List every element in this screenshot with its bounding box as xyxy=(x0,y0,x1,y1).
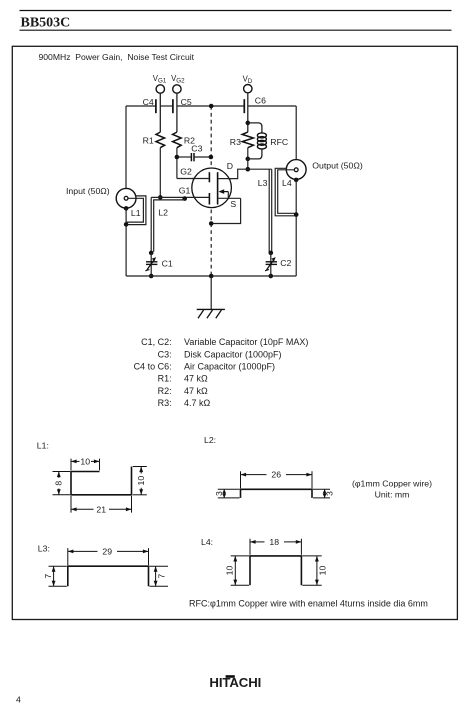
svg-text:G2: G2 xyxy=(180,167,192,177)
svg-text:7: 7 xyxy=(156,574,166,579)
wire: output down xyxy=(295,180,297,276)
wire: C3 right xyxy=(194,156,211,158)
figure L1 dim 21 line and arrows xyxy=(71,508,94,510)
svg-text:D: D xyxy=(227,161,233,171)
wire: drain node to L3 xyxy=(248,168,272,170)
wire: source lead inside circle xyxy=(218,197,240,199)
svg-text:R3:: R3: xyxy=(158,398,172,408)
svg-text:C3:: C3: xyxy=(158,349,172,359)
figure L3 dim 29 extensions xyxy=(67,548,69,565)
terminal VG1 circle xyxy=(156,85,164,93)
svg-text:L3:: L3: xyxy=(38,544,50,554)
capacitor C2 plates xyxy=(266,261,277,263)
input connector center pin xyxy=(124,196,128,200)
dashed shield line xyxy=(210,106,212,276)
output connector center pin xyxy=(294,168,298,172)
node: L1 bottom junction xyxy=(124,222,129,227)
transistor Q1 gate bar G1 xyxy=(208,193,210,205)
wire: bottom rail xyxy=(126,275,296,277)
capacitor C2 variable arrow xyxy=(267,260,275,270)
inductor RFC branch bottom wire xyxy=(248,149,262,159)
figure L2 dim 3 right line and arrows xyxy=(324,489,326,498)
wire: right drop to output xyxy=(295,106,297,160)
wire: source arrow stub xyxy=(227,192,229,199)
svg-text:Air Capacitor (1000pF): Air Capacitor (1000pF) xyxy=(184,362,275,372)
figure L2 dim 3 left line and arrows xyxy=(223,489,225,498)
svg-text:VD: VD xyxy=(243,74,253,85)
capacitor C6 plate xyxy=(243,99,245,113)
node: L2 inner start junction xyxy=(182,196,187,201)
inductor L4 strip inner line xyxy=(278,170,297,214)
inductor RFC coil xyxy=(257,133,266,138)
inductor L4 strip outer line xyxy=(275,168,296,216)
svg-text:C6: C6 xyxy=(255,95,266,105)
svg-text:Input (50Ω): Input (50Ω) xyxy=(66,186,110,196)
header bottom rule xyxy=(20,29,452,31)
wire: C3 left xyxy=(177,156,191,158)
figure L3 dim 7 right line and arrows xyxy=(155,566,157,586)
figure L2 strip outline xyxy=(241,489,313,498)
output connector circle xyxy=(286,160,306,180)
node: R1/G1 junction xyxy=(158,195,163,200)
wire: drain lead inside circle xyxy=(218,178,231,180)
node: input circle bottom junction xyxy=(124,206,129,211)
figure L1 dim 10 right extensions xyxy=(133,466,147,468)
wire: left drop to input xyxy=(125,106,127,189)
resistor R2 xyxy=(173,132,182,148)
figure L4 strip outline xyxy=(250,556,301,585)
svg-text:L4:: L4: xyxy=(201,537,213,547)
figure L2 dim 3 left extensions xyxy=(218,488,240,490)
node: source / shield junction xyxy=(209,221,214,226)
inductor L3 strip right line xyxy=(271,169,273,251)
figure L1 strip outline xyxy=(71,467,132,495)
svg-text:C1, C2:: C1, C2: xyxy=(141,337,172,347)
figure L4 dim 10 left line and arrows xyxy=(234,556,236,585)
svg-text:7: 7 xyxy=(43,574,53,579)
svg-text:C5: C5 xyxy=(181,97,192,107)
wire: top ground rail segment 2 xyxy=(160,105,173,107)
svg-text:Disk Capacitor (1000pF): Disk Capacitor (1000pF) xyxy=(184,349,282,359)
svg-text:26: 26 xyxy=(271,470,281,480)
svg-text:C4 to C6:: C4 to C6: xyxy=(134,362,172,372)
wire: G2 lead xyxy=(177,178,209,180)
inductor L2 strip outer vertical xyxy=(150,197,152,253)
figure L2 dim 3 right extensions xyxy=(313,488,330,490)
wire: top ground rail segment 1 xyxy=(126,105,156,107)
svg-text:900MHz Power Gain, Noise Tes: 900MHz Power Gain, Noise Test Circuit xyxy=(39,52,195,62)
input connector circle xyxy=(116,188,136,208)
inductor RFC branch top wire xyxy=(248,123,262,133)
svg-text:10: 10 xyxy=(80,456,90,466)
svg-text:L2: L2 xyxy=(158,208,168,218)
figure L3 dim 7 left line and arrows xyxy=(53,566,55,586)
parts list xyxy=(134,337,309,408)
svg-text:Unit: mm: Unit: mm xyxy=(375,490,410,500)
capacitor C1 through wire xyxy=(150,253,152,276)
figure L4 dim 18 extensions xyxy=(249,539,251,555)
wire: VD down xyxy=(247,93,249,132)
inductor L3 strip left line xyxy=(268,169,270,253)
svg-text:L1:: L1: xyxy=(37,440,49,450)
svg-text:4: 4 xyxy=(16,694,21,704)
capacitor C2 through wire xyxy=(270,253,272,276)
terminal VD circle xyxy=(244,85,252,93)
wire: VG2 to R2 xyxy=(176,93,178,132)
svg-text:L4: L4 xyxy=(282,178,292,188)
svg-text:C3: C3 xyxy=(191,144,202,154)
capacitor C1 variable arrow xyxy=(147,260,155,270)
svg-text:(φ1mm Copper wire): (φ1mm Copper wire) xyxy=(352,479,432,489)
inductor L2 strip inner line xyxy=(154,200,185,252)
figure L2 dim 26 extensions xyxy=(240,471,242,488)
svg-text:R1: R1 xyxy=(143,136,154,146)
svg-text:Output (50Ω): Output (50Ω) xyxy=(312,160,363,170)
svg-text:29: 29 xyxy=(102,546,112,556)
figure L1 dim 10 top line and arrows xyxy=(71,460,80,462)
svg-text:18: 18 xyxy=(269,537,279,547)
resistor R3 xyxy=(242,132,253,148)
node: drain junction xyxy=(246,167,251,172)
svg-text:L1: L1 xyxy=(131,208,141,218)
capacitor C5 plate xyxy=(172,99,174,113)
svg-text:10: 10 xyxy=(225,566,235,576)
wire: top ground rail segment 4 xyxy=(248,105,296,107)
inductor L1 strip inner line xyxy=(126,198,143,222)
figure L2 dim 26 line and arrows xyxy=(241,474,267,476)
wire: G2 lead inside circle xyxy=(192,178,209,180)
node: C2 / bottom rail junction xyxy=(269,274,274,279)
transistor Q1 substrate arrow xyxy=(222,191,228,193)
figure L1 dim 21 extensions xyxy=(70,496,72,513)
figure L4 dim 10 right line and arrows xyxy=(316,556,318,585)
svg-text:R1:: R1: xyxy=(158,374,172,384)
figure L4 dim 10 left extensions xyxy=(231,555,249,557)
wire: VG1 to R1 xyxy=(159,93,161,132)
node: L2 / C1 junction xyxy=(149,251,154,256)
capacitor C3 plates xyxy=(190,153,192,161)
svg-text:RFC:φ1mm Copper wire with enam: RFC:φ1mm Copper wire with enamel 4turns … xyxy=(189,598,428,608)
inductor L1 strip outer line xyxy=(126,196,146,225)
terminal VG2 circle xyxy=(173,85,181,93)
op point: MOSFET body circle Q1 xyxy=(192,168,232,208)
svg-text:BB503C: BB503C xyxy=(21,16,71,31)
main figure border box xyxy=(12,46,457,619)
wire: R1 to G1 node xyxy=(159,148,161,198)
svg-text:R3: R3 xyxy=(230,137,241,147)
transistor Q1 gate bar G2 xyxy=(208,172,210,182)
svg-text:C2: C2 xyxy=(280,258,291,268)
node: VD / RFC top junction xyxy=(246,121,251,126)
svg-text:3: 3 xyxy=(214,491,224,496)
svg-text:8: 8 xyxy=(53,481,63,486)
ground symbol xyxy=(197,308,225,310)
svg-text:VG1: VG1 xyxy=(153,74,167,85)
figure L3 dim 7 right extensions xyxy=(150,565,169,567)
wire: ground stub xyxy=(210,276,212,309)
svg-text:47 kΩ: 47 kΩ xyxy=(184,386,208,396)
node: R2/C3 junction xyxy=(175,155,180,160)
figure L4 dim 18 line and arrows xyxy=(250,541,265,543)
svg-text:21: 21 xyxy=(96,504,106,514)
svg-text:L2:: L2: xyxy=(204,435,216,445)
capacitor C4 plate xyxy=(155,99,157,113)
figure L1 dim 8 extensions xyxy=(53,471,71,473)
wire: R3 junction to drain node xyxy=(247,159,249,169)
wire: G1 lead (also L2 strip top outer line) xyxy=(151,196,208,198)
node: R3/RFC bottom junction xyxy=(246,157,251,162)
svg-text:G1: G1 xyxy=(179,185,191,195)
node: rail / shield junction xyxy=(209,104,214,109)
svg-text:L3: L3 xyxy=(258,178,268,188)
wire: drain node to FET xyxy=(218,169,247,178)
transistor Q1 channel bar xyxy=(217,172,219,204)
resistor R1 xyxy=(156,132,165,148)
svg-text:VG2: VG2 xyxy=(171,74,185,85)
wire: R2 to C3 node xyxy=(176,148,178,179)
svg-text:4.7 kΩ: 4.7 kΩ xyxy=(184,398,211,408)
svg-text:HITACHI: HITACHI xyxy=(209,675,261,690)
wire: source down and to shield xyxy=(211,198,240,223)
capacitor C1 plates xyxy=(146,261,157,263)
svg-text:Variable Capacitor (10pF MAX): Variable Capacitor (10pF MAX) xyxy=(184,337,308,347)
svg-text:10: 10 xyxy=(136,476,146,486)
figure L3 dim 7 left extensions xyxy=(49,565,67,567)
svg-text:47 kΩ: 47 kΩ xyxy=(184,374,208,384)
node: L4 bottom junction xyxy=(294,212,299,217)
node: C1 / bottom rail junction xyxy=(149,274,154,279)
svg-text:R2:: R2: xyxy=(158,386,172,396)
wire: input down xyxy=(125,208,127,276)
figure L1 dim 10 top extensions xyxy=(70,459,72,471)
svg-text:C1: C1 xyxy=(162,259,173,269)
figure L3 dim 29 line and arrows xyxy=(68,550,98,552)
figure L1 dim 8 line and arrows xyxy=(58,472,60,478)
svg-text:10: 10 xyxy=(318,566,328,576)
svg-text:S: S xyxy=(230,199,236,209)
svg-text:C4: C4 xyxy=(143,97,154,107)
wire: top ground rail segment 3 xyxy=(177,105,244,107)
figure L3 strip outline xyxy=(68,566,149,586)
node: ground junction xyxy=(209,274,214,279)
node: output circle bottom junction xyxy=(294,178,299,183)
wire: R3 bottom xyxy=(247,148,249,159)
svg-text:3: 3 xyxy=(324,491,334,496)
node: C3 / shield junction xyxy=(209,155,214,160)
node: L3 / C2 junction xyxy=(269,251,274,256)
svg-text:RFC: RFC xyxy=(270,137,288,147)
figure L1 dim 10 right line and arrows xyxy=(140,467,142,474)
figure L4 dim 10 right extensions xyxy=(302,555,321,557)
header top rule xyxy=(20,10,452,12)
